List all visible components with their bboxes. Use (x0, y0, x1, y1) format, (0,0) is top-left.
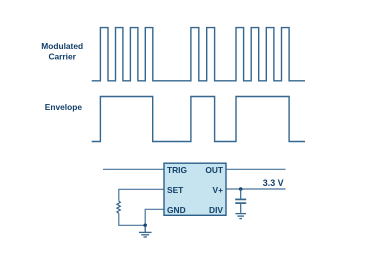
node: V+ supply node dot (239, 187, 243, 191)
ground (left, below junction) (139, 225, 152, 237)
node label: Modulated Carrier (41, 41, 83, 61)
wire: resistor bottom to junction (119, 213, 145, 225)
wire: V+ supply wire (226, 188, 286, 190)
svg-text:Envelope: Envelope (45, 102, 83, 112)
wire: GND pin wire down to junction (145, 209, 164, 225)
ground (below capacitor) (235, 214, 246, 219)
svg-text:TRIG: TRIG (167, 165, 187, 175)
svg-text:OUT: OUT (205, 165, 224, 175)
svg-text:GND: GND (167, 205, 186, 215)
svg-text:Modulated: Modulated (41, 41, 83, 51)
junction dot: resistor/GND node (143, 224, 147, 228)
pin TRIG (167, 165, 224, 215)
wire: envelope waveform (92, 97, 305, 142)
IC U1 monostable timer body (164, 163, 226, 215)
capacitor C1 (235, 189, 246, 213)
svg-text:DIV: DIV (209, 205, 223, 215)
wire: TRIG input wire (103, 168, 164, 170)
svg-text:3.3 V: 3.3 V (263, 178, 284, 188)
svg-text:Carrier: Carrier (48, 51, 76, 61)
wire: OUT output wire (226, 168, 286, 170)
wire: modulated carrier waveform (92, 28, 305, 81)
wire: SET wire with corner down to resistor (119, 189, 164, 200)
svg-text:V+: V+ (213, 185, 224, 195)
resistor R1 (117, 201, 120, 213)
svg-text:SET: SET (167, 185, 184, 195)
